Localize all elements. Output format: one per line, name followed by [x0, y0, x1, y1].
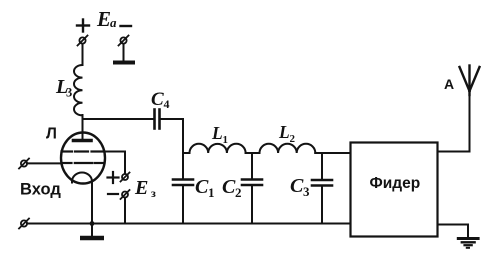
svg-text:E: E	[96, 7, 111, 31]
svg-text:1: 1	[208, 185, 215, 200]
feeder box	[351, 143, 438, 237]
input terminal lower	[19, 219, 29, 229]
svg-text:Фидер: Фидер	[370, 175, 421, 192]
svg-text:3: 3	[303, 184, 310, 199]
tube anode plate	[74, 139, 92, 143]
inductor L2	[260, 144, 316, 153]
svg-text:2: 2	[290, 133, 296, 145]
svg-text:3: 3	[66, 86, 72, 100]
inductor L1	[190, 144, 246, 153]
wire feeder to antenna	[438, 95, 470, 152]
svg-text:C: C	[290, 175, 304, 197]
wire L3 to anode of tube	[82, 115, 84, 139]
tube envelope	[61, 133, 105, 184]
terminal Ea plus	[78, 36, 88, 46]
cathode lead wire	[91, 182, 93, 224]
wire Ea- terminal to chassis	[123, 44, 125, 61]
wire feeder to earth ground	[438, 225, 469, 238]
svg-text:Л: Л	[46, 126, 57, 143]
svg-text:А: А	[444, 76, 454, 92]
svg-text:Вход: Вход	[20, 181, 61, 199]
wire L1 to L2	[246, 152, 260, 154]
wire C4 to filter node A	[160, 119, 184, 153]
bottom rail	[27, 223, 350, 225]
capacitor C2	[251, 153, 253, 179]
plus sign of Ea	[77, 20, 89, 32]
junction dot cathode-rail	[90, 221, 95, 226]
terminal Ea minus	[119, 36, 129, 46]
svg-text:з: з	[151, 186, 156, 200]
tube control grid (dashed)	[62, 162, 103, 164]
svg-text:C: C	[222, 176, 236, 198]
capacitor C1	[182, 153, 184, 179]
tube cathode	[72, 173, 92, 183]
earth ground	[457, 239, 480, 248]
minus sign of Ea	[121, 25, 132, 27]
input terminal upper	[19, 159, 29, 169]
chassis ground bar at cathode	[91, 224, 93, 237]
inductor L3	[74, 65, 83, 115]
svg-text:L: L	[211, 123, 223, 143]
capacitor C4	[155, 110, 160, 129]
svg-text:2: 2	[235, 185, 242, 200]
minus sign of Ez	[108, 193, 118, 195]
svg-text:1: 1	[223, 134, 229, 146]
wire L2 to feeder box	[315, 152, 350, 154]
svg-text:E: E	[134, 177, 148, 199]
capacitor C3	[321, 153, 323, 180]
wire screen grid to Ez+	[104, 152, 126, 174]
filter rail segment node A	[183, 152, 190, 154]
svg-text:C: C	[195, 176, 209, 198]
wire anode junction to C4	[83, 118, 155, 120]
wire Ea+ terminal to coil L3	[82, 44, 84, 65]
tube screen grid (dashed)	[62, 150, 104, 152]
wire Ez- to bottom rail	[124, 198, 126, 224]
svg-text:4: 4	[164, 97, 170, 111]
svg-text:a: a	[110, 15, 117, 30]
wire input to control grid	[27, 162, 62, 164]
terminal Ez plus	[121, 173, 130, 182]
antenna	[460, 66, 480, 96]
svg-text:L: L	[278, 122, 290, 142]
terminal Ez minus	[121, 190, 130, 199]
svg-text:C: C	[151, 89, 164, 110]
chassis ground bar at Ea-	[113, 61, 135, 65]
plus sign of Ez	[108, 172, 119, 183]
